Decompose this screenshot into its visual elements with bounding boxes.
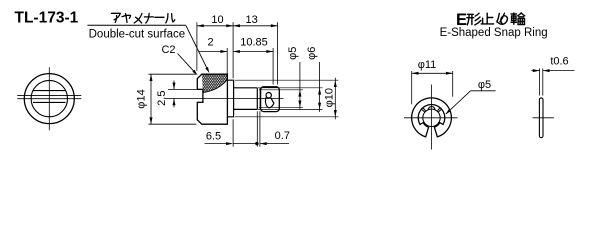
dia5 ext lines xyxy=(259,89,303,91)
leader arrow at knurl xyxy=(205,67,209,73)
dia14 arrow top xyxy=(150,74,153,81)
arrow dim 2 xyxy=(220,50,227,53)
svg-text:0.7: 0.7 xyxy=(275,130,290,142)
knurl boundary arc xyxy=(203,79,227,92)
top dim row 1: ext line A (head face) xyxy=(196,22,198,70)
dia10 arrows xyxy=(334,80,337,87)
dia5 dim line xyxy=(299,62,301,110)
ring view: horizontal centerline xyxy=(404,117,458,119)
dia11 ext line left xyxy=(411,71,413,104)
arrow 10.85 right xyxy=(266,50,273,53)
ring view: vertical centerline xyxy=(431,85,433,150)
knurl hatch region xyxy=(202,74,227,92)
svg-text:2.5: 2.5 xyxy=(156,91,168,106)
front view: slot lower chord xyxy=(33,101,66,103)
dot terminator xyxy=(255,142,258,145)
dia5 arrows xyxy=(298,90,301,97)
dia10 ext lines xyxy=(235,79,338,81)
dim 2.5 ext upper xyxy=(168,88,197,90)
dim 2 leader line xyxy=(199,51,228,53)
E-ring installed (pictorial rounded square) xyxy=(261,87,280,112)
t0.6 dim right line with arrow xyxy=(543,70,575,72)
ring bore circle dia5 xyxy=(423,109,440,126)
E-ring hole loop xyxy=(266,93,271,98)
svg-text:t0.6: t0.6 xyxy=(550,55,568,67)
ext line B (collar end) xyxy=(232,22,234,78)
ring side view: rect xyxy=(539,98,543,138)
svg-text:φ5: φ5 xyxy=(287,47,299,60)
bottom dim: ext at collar end xyxy=(232,119,234,146)
leader line C2 to chamfer xyxy=(178,54,197,74)
dim 0.7 right line with arrow xyxy=(260,143,289,145)
collar (dia 10) xyxy=(227,80,233,117)
label アヤメナール (katakana, drawn as paths) xyxy=(111,13,175,23)
dim line 10.85 xyxy=(233,51,273,53)
svg-text:6.5: 6.5 xyxy=(206,130,221,142)
front view: slot upper chord xyxy=(33,90,66,92)
katakana na xyxy=(144,13,153,23)
dia5 leader underline xyxy=(471,90,496,92)
katakana ru xyxy=(166,14,175,23)
dia5 leader diagonal xyxy=(446,91,471,114)
shaft (dia 6) xyxy=(234,88,258,110)
top dim row 2: ext line head edge xyxy=(226,48,228,79)
t0.6 ext lines xyxy=(539,69,541,96)
svg-text:φ5: φ5 xyxy=(478,79,491,91)
svg-text:φ11: φ11 xyxy=(418,59,437,71)
katakana me xyxy=(134,13,142,23)
head outline (dia 14 knurled head with C2 chamfers and slot notch) xyxy=(197,74,227,124)
dia14 ext top xyxy=(149,73,197,75)
svg-text:φ6: φ6 xyxy=(306,47,318,60)
ext line D (part end) xyxy=(277,22,279,84)
ext line C xyxy=(272,48,274,85)
svg-text:Double-cut surface: Double-cut surface xyxy=(89,28,186,40)
ring top tooth xyxy=(428,107,435,110)
dia6 ext lines xyxy=(258,87,323,89)
svg-text:10: 10 xyxy=(211,14,223,26)
katakana a xyxy=(111,13,120,22)
katakana long bar xyxy=(155,16,164,18)
dia14 ext bottom xyxy=(149,123,197,125)
dim 6.5 span line xyxy=(233,143,257,145)
svg-text:2: 2 xyxy=(207,37,213,49)
dia5 leader arrow xyxy=(445,109,451,115)
dim 2.5 arrows and stems xyxy=(173,81,175,90)
svg-text:10.85: 10.85 xyxy=(240,37,268,49)
dia11 dim line xyxy=(412,72,453,74)
dia6 dim line xyxy=(319,62,321,112)
ext at groove right xyxy=(259,111,261,146)
svg-text:φ14: φ14 xyxy=(135,89,147,108)
E-ring outline xyxy=(412,98,452,137)
dim line 10/13 xyxy=(197,25,278,27)
ring notch left xyxy=(421,108,425,112)
kanji tome (stop) xyxy=(481,13,493,24)
front view: centerline horizontal xyxy=(17,98,81,100)
dia11 arrows xyxy=(412,72,419,75)
front view: long line upper xyxy=(17,94,81,96)
leader line to knurl xyxy=(186,25,208,70)
ext at groove left xyxy=(256,111,258,146)
ring side view: centerline xyxy=(533,117,554,119)
t0.6 dim left arrow xyxy=(532,70,540,72)
arrow at D xyxy=(271,24,278,27)
arrow 6.5 xyxy=(226,142,233,145)
svg-text:C2: C2 xyxy=(161,44,175,56)
front view: inner circle xyxy=(31,80,67,116)
side view: centerline xyxy=(165,98,284,100)
dia14 dim line xyxy=(150,74,152,124)
front view: centerline vertical xyxy=(48,67,50,130)
kana me xyxy=(497,13,508,24)
dim 6.5 left line xyxy=(205,143,232,145)
arrows at B xyxy=(226,24,233,27)
svg-text:TL-173-1: TL-173-1 xyxy=(15,9,79,26)
arrow 10.85 left xyxy=(233,50,240,53)
dia6 arrows xyxy=(318,88,321,95)
dia14 arrow bottom xyxy=(150,117,153,124)
katakana ya xyxy=(122,14,131,23)
dia10 dim line xyxy=(334,78,336,120)
svg-text:E-Shaped Snap Ring: E-Shaped Snap Ring xyxy=(440,27,548,39)
ring notch right xyxy=(437,108,441,112)
underline of knurl label xyxy=(87,24,185,26)
kanji wa (ring/wheel) xyxy=(511,13,525,25)
kanji kei (shape) xyxy=(467,13,481,25)
dia11 ext line right xyxy=(452,71,454,97)
arrow at A right-facing body xyxy=(197,24,204,27)
E-ring tail swoosh xyxy=(265,97,274,108)
svg-text:13: 13 xyxy=(245,14,257,26)
front view: outer circle (dia 14) xyxy=(24,74,74,124)
slot notch lines on face xyxy=(197,89,203,102)
svg-text:φ10: φ10 xyxy=(324,88,336,107)
groove right edge line xyxy=(259,88,261,110)
leader arrow at chamfer xyxy=(192,70,197,75)
